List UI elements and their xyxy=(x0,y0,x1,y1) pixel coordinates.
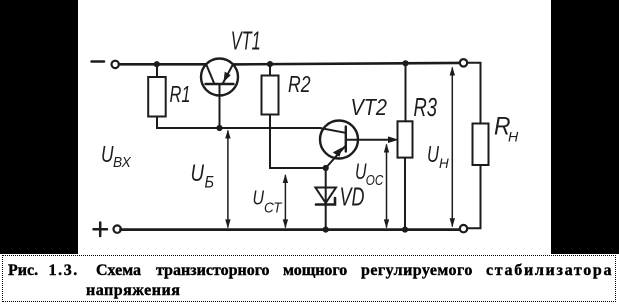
junction dot at VT1 base / bus xyxy=(216,125,222,131)
svg-text:U: U xyxy=(101,141,114,167)
junction dot VD bottom xyxy=(323,227,329,233)
junction dot R3 top xyxy=(402,60,408,66)
measurement arrow U_os xyxy=(384,144,389,229)
terminal: input minus xyxy=(112,61,119,68)
wiper arrowhead into R3 xyxy=(389,137,398,142)
svg-text:СТ: СТ xyxy=(264,201,283,217)
resistor R2 xyxy=(262,64,323,168)
caption box xyxy=(2,255,616,302)
svg-text:VD: VD xyxy=(340,182,365,212)
plus sign (input polarity) xyxy=(94,223,108,237)
wire: top rail right segment xyxy=(233,63,460,65)
measurement arrow U_b xyxy=(225,130,230,229)
right black rectangle xyxy=(551,0,619,254)
svg-text:U: U xyxy=(191,160,205,187)
svg-text:U: U xyxy=(427,141,439,167)
svg-text:ВХ: ВХ xyxy=(113,154,132,171)
svg-text:U: U xyxy=(253,188,265,210)
svg-text:VT1: VT1 xyxy=(231,26,261,56)
svg-text:Н: Н xyxy=(508,130,518,145)
svg-text:R3: R3 xyxy=(414,92,438,122)
svg-text:R1: R1 xyxy=(170,81,191,107)
wire: top rail left segment xyxy=(119,63,206,66)
zener diode VD xyxy=(315,168,336,230)
terminal: input plus xyxy=(114,225,121,232)
svg-text:Н: Н xyxy=(439,156,449,171)
resistor Rn (load) xyxy=(467,63,488,229)
transistor VT2 xyxy=(320,121,392,169)
left black rectangle xyxy=(0,0,78,254)
measurement arrow U_st xyxy=(283,174,288,228)
wire: base bus y=128 from R1 bottom to VT2 xyxy=(157,117,321,129)
measurement arrow U_n xyxy=(450,67,455,228)
junction dot R1 top xyxy=(154,61,160,67)
resistor R3 (potentiometer) xyxy=(398,63,413,230)
junction dot VT2 emitter / R2 / VD xyxy=(323,165,329,171)
resistor R1 xyxy=(148,64,166,116)
svg-text:R2: R2 xyxy=(288,71,311,97)
wire: bottom rail xyxy=(121,228,460,231)
minus sign (input polarity) xyxy=(92,60,105,63)
transistor VT1 xyxy=(201,59,238,129)
junction dot R3 bottom xyxy=(402,227,408,233)
junction dot R2 top xyxy=(267,61,273,67)
svg-text:VT2: VT2 xyxy=(351,94,388,120)
svg-text:ОС: ОС xyxy=(366,173,384,189)
terminal: output top xyxy=(460,59,467,66)
svg-text:Б: Б xyxy=(205,174,215,192)
terminal: output bottom xyxy=(460,225,467,232)
